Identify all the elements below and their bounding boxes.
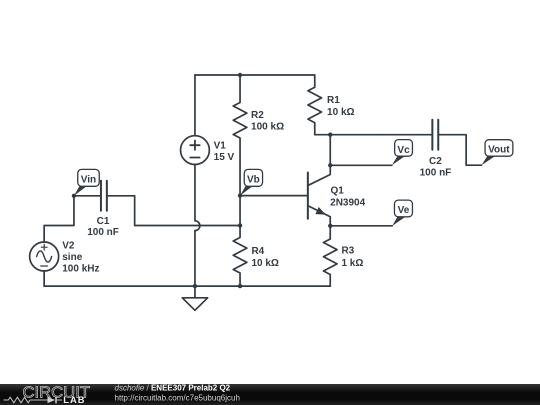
- svg-text:R1: R1: [327, 95, 340, 106]
- svg-text:Ve: Ve: [398, 205, 410, 216]
- svg-text:Q1: Q1: [330, 186, 344, 197]
- svg-text:dschofie / ENEE307 Prelab2 Q2: dschofie / ENEE307 Prelab2 Q2: [115, 384, 231, 393]
- svg-text:100 nF: 100 nF: [420, 168, 452, 179]
- svg-text:R4: R4: [251, 246, 264, 257]
- svg-text:C1: C1: [97, 216, 110, 227]
- svg-text:Vout: Vout: [488, 144, 510, 155]
- svg-text:http://circuitlab.com/c7e5ubuq: http://circuitlab.com/c7e5ubuq6jcuh: [115, 393, 240, 402]
- svg-text:LAB: LAB: [63, 395, 85, 405]
- svg-text:Vc: Vc: [397, 145, 410, 156]
- svg-text:1 kΩ: 1 kΩ: [341, 258, 363, 269]
- svg-text:10 kΩ: 10 kΩ: [251, 258, 278, 269]
- svg-text:V1: V1: [214, 140, 227, 151]
- svg-text:Vb: Vb: [247, 175, 260, 186]
- svg-text:sine: sine: [62, 252, 82, 263]
- svg-text:Vin: Vin: [81, 175, 96, 186]
- svg-text:10 kΩ: 10 kΩ: [327, 107, 354, 118]
- svg-text:C2: C2: [429, 156, 442, 167]
- svg-text:V2: V2: [62, 241, 75, 252]
- svg-text:100 nF: 100 nF: [87, 227, 119, 238]
- svg-text:15 V: 15 V: [214, 152, 235, 163]
- svg-text:R2: R2: [251, 110, 264, 121]
- svg-text:2N3904: 2N3904: [330, 198, 365, 209]
- svg-text:100 kHz: 100 kHz: [62, 264, 99, 275]
- svg-text:100 kΩ: 100 kΩ: [251, 122, 284, 133]
- svg-text:R3: R3: [341, 246, 354, 257]
